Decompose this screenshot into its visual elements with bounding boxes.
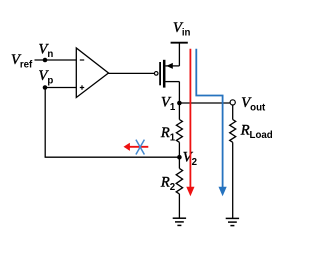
wire V2 to R2 (178, 157, 180, 168)
svg-text:R1: R1 (160, 125, 176, 144)
wire Vref to inverting input (35, 59, 77, 61)
svg-text:R2: R2 (160, 175, 175, 194)
wire feedback vertical from Vp down (44, 88, 46, 158)
wire op-amp output to gate (109, 72, 155, 74)
svg-text:Vin: Vin (173, 20, 191, 39)
wire V1 to Vout (179, 102, 230, 104)
ground left (173, 217, 186, 219)
svg-text:Vout: Vout (241, 95, 266, 114)
op-amp U1 (76, 48, 108, 98)
wire R1 to V2 (178, 142, 180, 157)
wire Vp to non-inverting input (45, 87, 76, 89)
node Vp junction dot (43, 85, 48, 90)
Vin supply T-bar (171, 42, 188, 44)
node Vn junction dot (43, 58, 48, 63)
wire V1 to R1 (178, 103, 180, 120)
svg-text:Vp: Vp (39, 68, 54, 87)
blue X cross (136, 140, 145, 155)
svg-text:V1: V1 (161, 95, 176, 114)
terminal Vout open circle (230, 100, 235, 105)
node V2 dot (177, 155, 182, 160)
wire feedback horizontal to V2 (45, 156, 180, 158)
current arrow blue vertical (196, 49, 222, 187)
current arrow red vertical (189, 49, 191, 187)
crossed-out red arrow (no gate current) (130, 146, 149, 148)
svg-text:RLoad: RLoad (240, 123, 273, 142)
resistor R1 (176, 120, 182, 143)
wire Vout to RLoad (232, 105, 234, 119)
wire R2 to ground (178, 194, 180, 218)
transistor M1 gate bar (159, 62, 161, 85)
transistor M1 channel bar (163, 60, 166, 88)
transistor M1 PMOS gate bubble (154, 72, 158, 76)
wire source up to Vin (178, 43, 180, 66)
wire RLoad to ground (232, 142, 234, 218)
resistor RLoad (230, 120, 236, 143)
transistor M1 source arrow (166, 63, 173, 69)
resistor R2 (176, 168, 182, 194)
wire drain down to V1 (178, 82, 180, 103)
svg-text:Vref: Vref (11, 52, 33, 71)
svg-text:Vn: Vn (39, 42, 54, 61)
ground right (226, 217, 239, 219)
node V1 dot (177, 101, 182, 106)
transistor M1 drain lead (165, 81, 179, 83)
transistor M1 source lead (165, 65, 179, 67)
